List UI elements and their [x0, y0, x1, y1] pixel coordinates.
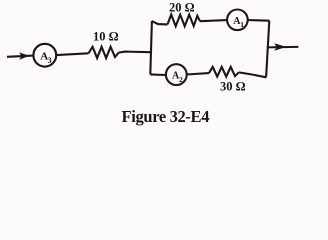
svg-text:2: 2 — [179, 75, 183, 84]
wire A3 to R 10 ohm — [56, 53, 88, 55]
svg-text:Figure 32-E4: Figure 32-E4 — [122, 107, 210, 126]
output current arrow — [274, 43, 286, 51]
wire right vertical — [266, 21, 269, 78]
wire A1 to top-right corner — [248, 19, 270, 22]
resistor 20 ohm — [168, 15, 201, 27]
input current arrow — [19, 52, 29, 59]
ammeter A1 — [227, 9, 248, 30]
svg-text:10 Ω: 10 Ω — [93, 30, 119, 44]
resistor 30 ohm — [209, 67, 239, 77]
wire left vertical (node splitting branches) — [150, 21, 152, 75]
wire input lead — [7, 56, 33, 57]
svg-text:3: 3 — [48, 56, 52, 65]
svg-text:1: 1 — [240, 20, 244, 29]
wire A2 to R 30 ohm — [187, 73, 209, 74]
wire R 10 ohm to node left — [119, 52, 151, 53]
svg-text:30 Ω: 30 Ω — [220, 80, 246, 94]
wire R 20 ohm to A1 — [200, 20, 227, 21]
ammeter A2 — [166, 64, 187, 85]
wire top-left to R 20 ohm — [152, 21, 168, 24]
wire R 30 ohm to bottom-right corner — [239, 72, 266, 77]
ammeter A3 — [33, 44, 56, 67]
resistor 10 ohm — [89, 47, 119, 58]
wire output lead — [267, 46, 298, 49]
wire bottom-left corner to A2 — [150, 73, 166, 76]
svg-text:20 Ω: 20 Ω — [169, 0, 195, 14]
